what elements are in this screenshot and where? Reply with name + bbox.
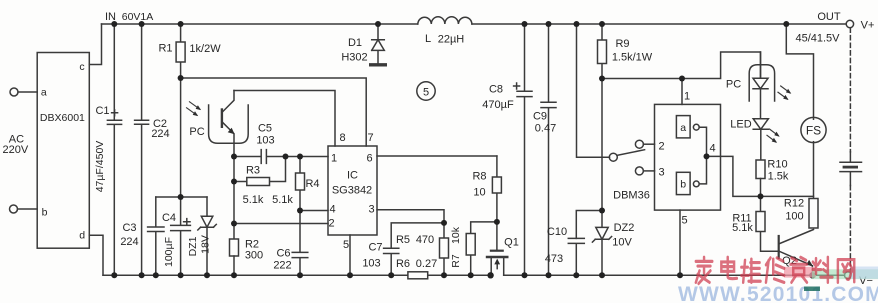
capacitor C10 473: [568, 238, 584, 275]
junction dot R9 bottom: [599, 76, 605, 82]
watermark green highlight: [812, 269, 878, 279]
svg-text:C1: C1: [95, 105, 109, 117]
svg-text:222: 222: [273, 260, 291, 272]
svg-text:224: 224: [120, 236, 138, 248]
svg-text:DZ2: DZ2: [614, 222, 635, 234]
junction dots PC emitter / C5 net: [231, 154, 237, 160]
wire: R9 down to DZ2 node (crosses switch feed): [601, 79, 603, 211]
wire: pin6 output to R8: [377, 155, 497, 157]
wire: R9 node to DBM36 pin 1 and PC diode anode: [602, 52, 761, 104]
wire: pin2 line: [234, 223, 328, 225]
svg-text:100: 100: [785, 211, 803, 223]
svg-text:470µF: 470µF: [482, 99, 514, 111]
optocoupler phototransistor PC housing: [209, 105, 249, 143]
svg-text:R8: R8: [472, 171, 486, 183]
svg-text:3: 3: [658, 167, 664, 179]
junction dots bottom rail: [111, 272, 117, 278]
terminal: OUT V+: [846, 20, 853, 27]
resistor R8 10: [496, 156, 498, 222]
svg-text:D1: D1: [348, 37, 362, 49]
junction dot R1 bottom: [178, 75, 184, 81]
MOSFET Q1: [496, 222, 498, 250]
resistor R5 470: [443, 223, 445, 275]
svg-text:10: 10: [473, 187, 485, 199]
svg-text:10V: 10V: [612, 237, 632, 249]
wire: DBM36 pin 5 to ground rail: [679, 210, 681, 275]
svg-text:R3: R3: [246, 165, 260, 177]
svg-text:DBM36: DBM36: [613, 190, 650, 202]
junction dot pin3 node: [441, 220, 447, 226]
Q2 emitter arrowhead: [806, 260, 813, 266]
wire: AC b lead: [18, 208, 38, 210]
svg-text:H302: H302: [341, 52, 367, 64]
junction dot R8/gate node: [494, 219, 500, 225]
svg-text:4: 4: [709, 143, 715, 155]
svg-text:C9: C9: [533, 111, 547, 123]
wire: pin3 current sense line: [377, 210, 444, 223]
svg-text:3: 3: [368, 204, 374, 216]
Q1 source arrowhead: [494, 259, 500, 265]
battery pack (dashed): [849, 28, 851, 152]
junction dot DBM36 pin1: [679, 76, 685, 82]
optocoupler phototransistor PC: [221, 110, 223, 127]
capacitor C9 0.47: [541, 24, 556, 275]
wire: PC emitter node down to R2: [233, 157, 235, 240]
svg-text:DBX6001: DBX6001: [40, 112, 85, 124]
comparator cell a: [676, 116, 690, 138]
current monitor FS: [801, 117, 826, 142]
light arrow out of PC: [778, 86, 790, 99]
switch contact 2: [635, 140, 643, 148]
wire: aux node horizontal C3 to DZ1: [156, 196, 207, 198]
svg-text:6: 6: [366, 153, 372, 165]
svg-text:C8: C8: [489, 84, 503, 96]
wire: top rail to FS: [786, 24, 813, 119]
svg-text:103: 103: [362, 258, 380, 270]
svg-text:103: 103: [256, 135, 274, 147]
svg-text:a: a: [41, 86, 47, 98]
svg-text:R12: R12: [784, 198, 804, 210]
svg-text:d: d: [79, 229, 85, 241]
indicator LED: [753, 119, 768, 160]
svg-text:R10: R10: [767, 159, 787, 171]
svg-text:C5: C5: [258, 123, 272, 135]
wire: pin4 feedback line: [300, 210, 328, 212]
svg-text:5.1k: 5.1k: [243, 194, 264, 206]
svg-text:7: 7: [367, 132, 373, 144]
svg-text:IC: IC: [347, 170, 358, 182]
light arrow into PC: [187, 102, 200, 115]
svg-text:5.1k: 5.1k: [272, 194, 293, 206]
resistor R2 300: [230, 239, 239, 256]
capacitor C2 224: [135, 24, 149, 275]
capacitor C7 103: [384, 248, 399, 275]
svg-text:0.27: 0.27: [416, 258, 437, 270]
svg-text:R7: R7: [450, 254, 462, 268]
wire: FS to R12: [813, 142, 815, 199]
arrowheads: [193, 89, 813, 266]
wire: contact 3 to DBM36: [643, 170, 654, 172]
svg-text:60V1A: 60V1A: [122, 11, 154, 23]
switch contact 3: [635, 167, 643, 175]
svg-text:c: c: [79, 61, 84, 73]
junction dot DBM36 internal node 4: [704, 153, 710, 159]
svg-text:b: b: [42, 207, 48, 219]
wire: contact 2 to DBM36: [643, 143, 654, 145]
wire: R1 down to C3/C4/DZ1 node: [180, 78, 182, 197]
transistor Q2: [778, 236, 780, 258]
wire: top +60V rail from IN to OUT: [102, 23, 847, 25]
svg-text:R1: R1: [158, 43, 172, 55]
watermark blue highlight: [851, 267, 878, 279]
wire: DZ2/C10 node: [576, 211, 602, 239]
svg-text:WWW.520101.COM: WWW.520101.COM: [678, 283, 878, 303]
capacitor C5 103: [234, 150, 328, 164]
watermark pink highlight: [784, 267, 816, 278]
capacitor C8 470uF: [514, 24, 532, 275]
svg-text:R9: R9: [615, 38, 629, 50]
resistor R11 5.1k: [761, 196, 779, 251]
svg-text:1.5k/1W: 1.5k/1W: [612, 52, 653, 64]
light arrow out of LED: [767, 129, 778, 142]
rectifier module DBX6001: [37, 53, 89, 249]
watermark teal fragment: [804, 287, 820, 292]
switch pole contact: [609, 153, 617, 161]
svg-text:a: a: [680, 122, 686, 134]
light arrowheads PC right: [786, 89, 791, 94]
light arrowheads PC left: [196, 105, 202, 110]
wire: pin3 node to C7: [391, 223, 444, 248]
junction dots top rail: [111, 21, 117, 27]
svg-text:47µF/450V: 47µF/450V: [94, 141, 106, 193]
diode D1 H302: [372, 24, 385, 63]
wire: cells a,b to pin 4 node: [699, 127, 706, 184]
svg-text:300: 300: [245, 250, 263, 262]
terminal: AC input a: [10, 88, 18, 96]
svg-text:R4: R4: [305, 178, 319, 190]
module DBM36: [655, 104, 721, 210]
capacitor C4 100uF: [171, 197, 191, 275]
comparator cell b: [676, 172, 690, 194]
svg-text:DZ1: DZ1: [187, 236, 199, 256]
svg-text:C6: C6: [276, 248, 290, 260]
wire: node to R12 and FS: [761, 195, 814, 197]
wire: rectifier output c to top rail, IN: [89, 24, 101, 65]
wire: pin5 to ground: [349, 235, 351, 275]
resistor R1 1k/2W: [180, 24, 182, 78]
svg-text:LED: LED: [730, 119, 751, 131]
svg-text:b: b: [680, 179, 686, 191]
svg-text:OUT: OUT: [817, 11, 841, 23]
resistor R7 10k: [471, 222, 497, 275]
svg-text:C4: C4: [162, 212, 176, 224]
wire: aux rail R1 to pin7: [181, 78, 367, 146]
switch lever: [617, 150, 645, 156]
PC emitter arrowhead: [228, 128, 235, 135]
callout circle 5: [417, 82, 435, 100]
wire: rectifier output d to bottom rail: [89, 235, 103, 275]
svg-text:470: 470: [416, 234, 434, 246]
svg-text:R5: R5: [396, 234, 410, 246]
svg-text:SG3842: SG3842: [332, 185, 372, 197]
IC U1 SG3842: [328, 146, 377, 235]
svg-text:5: 5: [343, 239, 349, 251]
svg-text:0.47: 0.47: [535, 123, 556, 135]
svg-text:C3: C3: [122, 222, 136, 234]
svg-text:224: 224: [151, 128, 169, 140]
svg-text:C7: C7: [368, 242, 382, 254]
svg-text:1: 1: [331, 153, 337, 165]
junction dot aux node: [178, 194, 184, 200]
inductor L 22uH: [418, 17, 472, 24]
resistor R9 1.5k/1W: [601, 24, 603, 79]
svg-text:2: 2: [328, 218, 334, 230]
resistor R6 0.27 (in ground rail): [408, 272, 428, 279]
svg-text:L: L: [425, 33, 431, 45]
svg-text:C10: C10: [547, 226, 567, 238]
svg-text:5: 5: [423, 86, 429, 98]
svg-text:5.1k: 5.1k: [732, 222, 753, 234]
wire: AC a lead: [18, 91, 37, 93]
svg-text:220V: 220V: [3, 144, 29, 156]
zener diode DZ2 10V: [592, 211, 611, 276]
svg-text:FS: FS: [806, 124, 821, 138]
junction dot DZ2 top: [599, 208, 605, 214]
capacitor C6 222: [292, 211, 308, 276]
svg-text:1k/2W: 1k/2W: [189, 43, 221, 55]
watermark red chinese text: [696, 257, 854, 283]
svg-text:PC: PC: [726, 79, 741, 91]
svg-text:8: 8: [339, 132, 345, 144]
svg-text:45/41.5V: 45/41.5V: [795, 33, 840, 45]
svg-text:4: 4: [329, 204, 335, 216]
terminal: AC input b: [10, 205, 18, 213]
optocoupler LED PC housing: [749, 65, 774, 101]
svg-text:V+: V+: [861, 20, 875, 32]
wire: bottom return rail: [103, 274, 844, 276]
capacitor C3 224: [148, 197, 164, 275]
svg-text:2: 2: [658, 141, 664, 153]
resistor R3 5.1k: [234, 157, 286, 182]
capacitor C1 47uF/450V: [107, 24, 121, 275]
svg-text:PC: PC: [189, 126, 204, 138]
wire: top rail down to switch pole: [577, 24, 610, 157]
svg-text:22µH: 22µH: [438, 34, 465, 46]
resistor R10 1.5k: [756, 160, 765, 179]
light arrowheads LED: [774, 132, 779, 137]
zener diode DZ1 18V: [198, 197, 217, 275]
svg-text:473: 473: [545, 253, 563, 265]
svg-text:10k: 10k: [450, 226, 462, 244]
svg-text:5: 5: [681, 215, 687, 227]
svg-text:100µF: 100µF: [163, 237, 175, 267]
svg-text:1: 1: [684, 91, 690, 103]
optocoupler LED PC: [753, 52, 768, 119]
svg-text:Q1: Q1: [504, 237, 519, 249]
wire: PC collector to pin 8: [234, 91, 335, 147]
svg-text:1.5k: 1.5k: [768, 171, 789, 183]
wire: pin 4 output to R10/R11 node: [707, 156, 761, 196]
junction dot R10/R11 node: [758, 193, 764, 199]
svg-text:18V: 18V: [200, 235, 212, 254]
resistor R4 5.1k: [299, 157, 301, 211]
resistor R12 100: [809, 199, 818, 229]
svg-text:R6: R6: [396, 258, 410, 270]
terminal: V-: [845, 272, 852, 279]
